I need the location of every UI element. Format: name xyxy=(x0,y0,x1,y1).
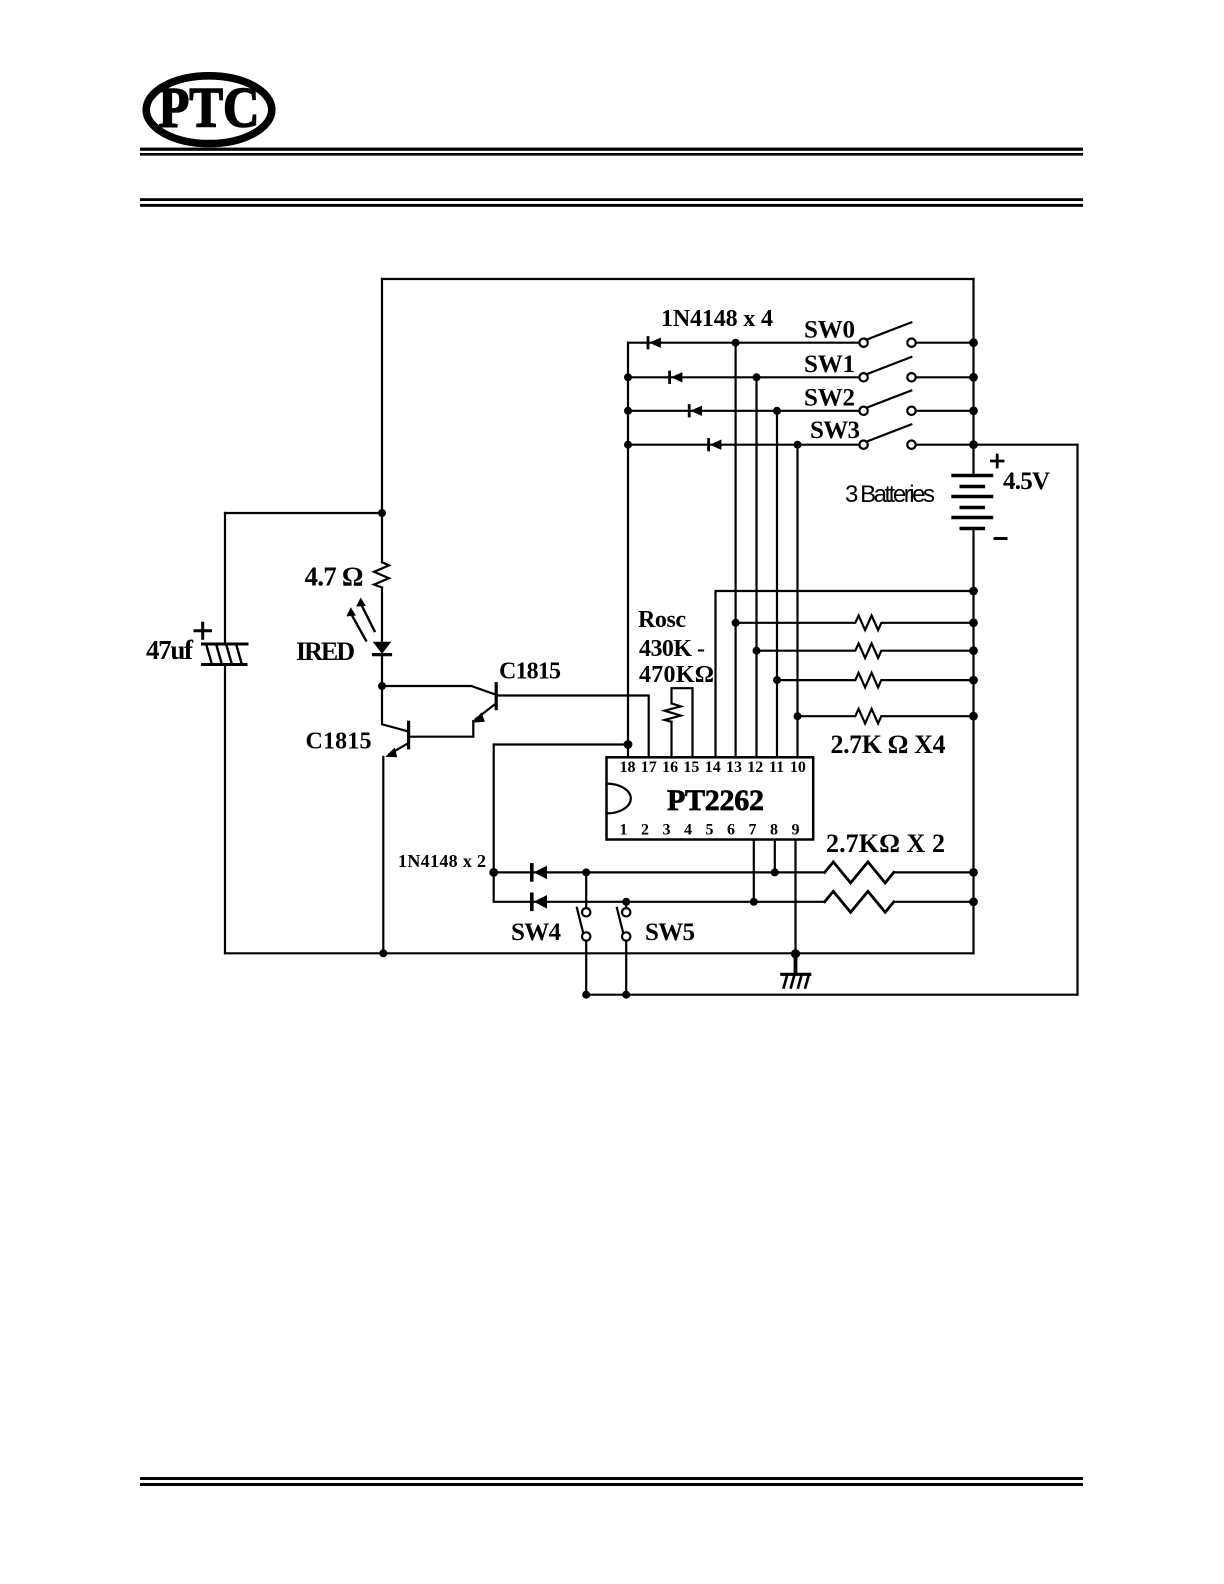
switch SW1 xyxy=(859,357,915,381)
wire SW0 row xyxy=(628,342,974,344)
wire left vertical to capacitor xyxy=(224,513,226,644)
node bus SW1 xyxy=(969,373,978,382)
switch SW0 xyxy=(859,322,915,347)
node pin 7 row B xyxy=(750,898,758,906)
node bus Vcc line xyxy=(969,587,978,596)
svg-text:14: 14 xyxy=(705,759,721,776)
node SW4 bottom rail xyxy=(582,991,590,999)
svg-text:SW2: SW2 xyxy=(804,385,855,412)
wire SW0 junction down to pin 13 xyxy=(734,343,736,757)
wire capacitor top horizontal xyxy=(225,512,382,514)
node SW4 top xyxy=(582,868,590,876)
node bus SW0 xyxy=(969,338,978,347)
transistor Q1 C1815 xyxy=(382,686,409,953)
node SW1 column xyxy=(753,373,761,381)
wire diode row B xyxy=(494,872,974,901)
wire resistor to IRED xyxy=(381,588,383,643)
svg-text:1: 1 xyxy=(620,822,628,839)
diode D3 1N4148 xyxy=(689,406,702,416)
switch SW4 xyxy=(577,872,591,994)
footer rule xyxy=(140,1477,1083,1486)
svg-text:6: 6 xyxy=(727,822,735,839)
svg-text:4: 4 xyxy=(684,822,692,839)
svg-text:9: 9 xyxy=(792,822,800,839)
node bus res row4 xyxy=(969,712,978,721)
resistor 2.7K B row2 xyxy=(757,643,974,658)
node IRED cathode / Q junction xyxy=(378,682,386,690)
svg-text:11: 11 xyxy=(769,759,784,776)
wire pin 8 down xyxy=(774,840,776,872)
switch SW2 xyxy=(859,391,915,415)
resistor 2.7K F row B xyxy=(825,891,894,912)
node res row4 left xyxy=(794,712,802,720)
svg-text:1N4148 x 4: 1N4148 x 4 xyxy=(661,306,773,332)
resistor 2.7K A row1 xyxy=(736,616,974,631)
header rule top xyxy=(140,148,1083,156)
node res row2 left xyxy=(753,647,761,655)
node diode bus SW1 xyxy=(624,373,632,381)
svg-text:430K -: 430K - xyxy=(639,636,705,662)
resistor Rosc between pin16 and pin15 xyxy=(665,688,693,757)
svg-text:2.7KΩ X 2: 2.7KΩ X 2 xyxy=(826,829,945,858)
diode D1 1N4148 xyxy=(648,338,661,348)
svg-text:47uf: 47uf xyxy=(146,635,194,665)
pin numbers bottom row xyxy=(620,822,800,839)
svg-text:IRED: IRED xyxy=(296,637,355,666)
resistor 2.7K E row A xyxy=(825,862,894,883)
wire SW2 row xyxy=(628,410,974,412)
wire diode row A xyxy=(494,871,974,873)
resistor 4.7 ohm xyxy=(374,562,389,587)
svg-text:16: 16 xyxy=(662,759,678,776)
wire SW1 row xyxy=(628,376,974,378)
node SW5 bottom rail xyxy=(622,991,630,999)
wire right border down xyxy=(1076,445,1078,995)
svg-text:C1815: C1815 xyxy=(499,658,561,684)
svg-text:18: 18 xyxy=(620,759,636,776)
node bus res row2 xyxy=(969,646,978,655)
svg-text:SW4: SW4 xyxy=(511,919,562,946)
transistor Q2 C1815 xyxy=(382,684,649,757)
node diode row A left xyxy=(489,868,498,877)
wire diode anode bus to pin 18 xyxy=(627,343,629,757)
svg-text:Rosc: Rosc xyxy=(638,607,686,633)
svg-text:10: 10 xyxy=(790,759,806,776)
wire SW3 row xyxy=(628,444,974,446)
svg-text:3 Batteries: 3 Batteries xyxy=(845,481,935,508)
wire pin 18 node to bottom-left drop xyxy=(494,745,628,873)
node SW3 column xyxy=(794,441,802,449)
wire SW1 junction down to pin 12 xyxy=(755,377,757,757)
node SW0 column xyxy=(732,339,740,347)
node diode bus SW3 xyxy=(624,441,632,449)
node res row3 left xyxy=(773,676,781,684)
wire bottom ground rail xyxy=(225,952,974,954)
node bus res row1 xyxy=(969,618,978,627)
svg-text:PTC: PTC xyxy=(159,77,260,140)
diode IRED xyxy=(346,598,390,655)
svg-text:PT2262: PT2262 xyxy=(667,784,764,817)
node bus SW2 xyxy=(969,406,978,415)
node res row1 left xyxy=(732,619,740,627)
wire switch bus right xyxy=(972,279,974,476)
svg-text:8: 8 xyxy=(770,822,778,839)
PTC logo xyxy=(146,76,272,144)
svg-text:5: 5 xyxy=(706,822,714,839)
svg-text:SW0: SW0 xyxy=(804,317,855,344)
node ground rail xyxy=(791,949,800,958)
svg-text:4.5V: 4.5V xyxy=(1003,468,1050,495)
wire bottom return rail xyxy=(586,994,1077,996)
IC U1 PT2262 xyxy=(607,757,814,839)
node bus row B xyxy=(969,897,978,906)
wire SW3 junction down to pin 10 xyxy=(796,445,798,757)
node SW5 top xyxy=(622,898,630,906)
capacitor C 47uf electrolytic xyxy=(195,623,247,664)
svg-text:2: 2 xyxy=(641,822,649,839)
svg-text:SW3: SW3 xyxy=(810,417,860,444)
diode D5 1N4148 xyxy=(532,865,547,880)
svg-text:SW1: SW1 xyxy=(804,351,855,378)
node cap top junction xyxy=(378,509,386,517)
wire battery minus to bottom bus xyxy=(972,529,974,954)
node pin 18 branch xyxy=(624,740,633,749)
switch SW3 xyxy=(859,424,915,449)
wire SW3 row extension to right border xyxy=(974,444,1078,446)
node SW2 column xyxy=(773,407,781,415)
resistor 2.7K D row4 xyxy=(798,709,974,724)
battery 3 cells xyxy=(953,455,1006,539)
node bus res row3 xyxy=(969,676,978,685)
wire top border of circuit xyxy=(382,278,974,280)
wire IRED cathode to node xyxy=(381,655,383,686)
header rule bottom xyxy=(140,198,1083,207)
node emitter at ground rail xyxy=(379,949,387,957)
svg-text:2.7K Ω X4: 2.7K Ω X4 xyxy=(831,730,946,759)
node bus SW3 battery xyxy=(969,440,978,449)
diode D4 1N4148 xyxy=(709,440,722,450)
node diode bus SW2 xyxy=(624,407,632,415)
node pin 8 row A xyxy=(771,868,779,876)
wire capacitor bottom to ground rail xyxy=(224,665,226,954)
svg-text:17: 17 xyxy=(641,759,657,776)
switch SW5 xyxy=(617,902,631,995)
svg-text:13: 13 xyxy=(726,759,742,776)
svg-text:15: 15 xyxy=(683,759,699,776)
svg-text:C1815: C1815 xyxy=(306,729,372,755)
svg-text:12: 12 xyxy=(747,759,763,776)
svg-text:470KΩ: 470KΩ xyxy=(639,662,714,688)
wire Vcc pin 14 up and right xyxy=(716,591,974,757)
resistor 2.7K C row3 xyxy=(777,673,974,688)
pin numbers top row xyxy=(620,759,806,776)
svg-text:4.7 Ω: 4.7 Ω xyxy=(305,562,364,592)
svg-text:1N4148 x 2: 1N4148 x 2 xyxy=(398,851,486,871)
wire left main vertical (top to resistor) xyxy=(381,279,383,562)
wire pin 7 down xyxy=(753,840,755,902)
node bus row A xyxy=(969,868,978,877)
svg-text:3: 3 xyxy=(663,822,671,839)
diode D6 1N4148 xyxy=(532,894,547,909)
wire pin 9 down to ground rail xyxy=(794,840,796,953)
wire SW2 junction down to pin 11 xyxy=(776,411,778,757)
diode D2 1N4148 xyxy=(670,372,683,382)
svg-text:7: 7 xyxy=(749,822,757,839)
ground symbol xyxy=(782,953,810,987)
svg-text:SW5: SW5 xyxy=(645,919,695,946)
